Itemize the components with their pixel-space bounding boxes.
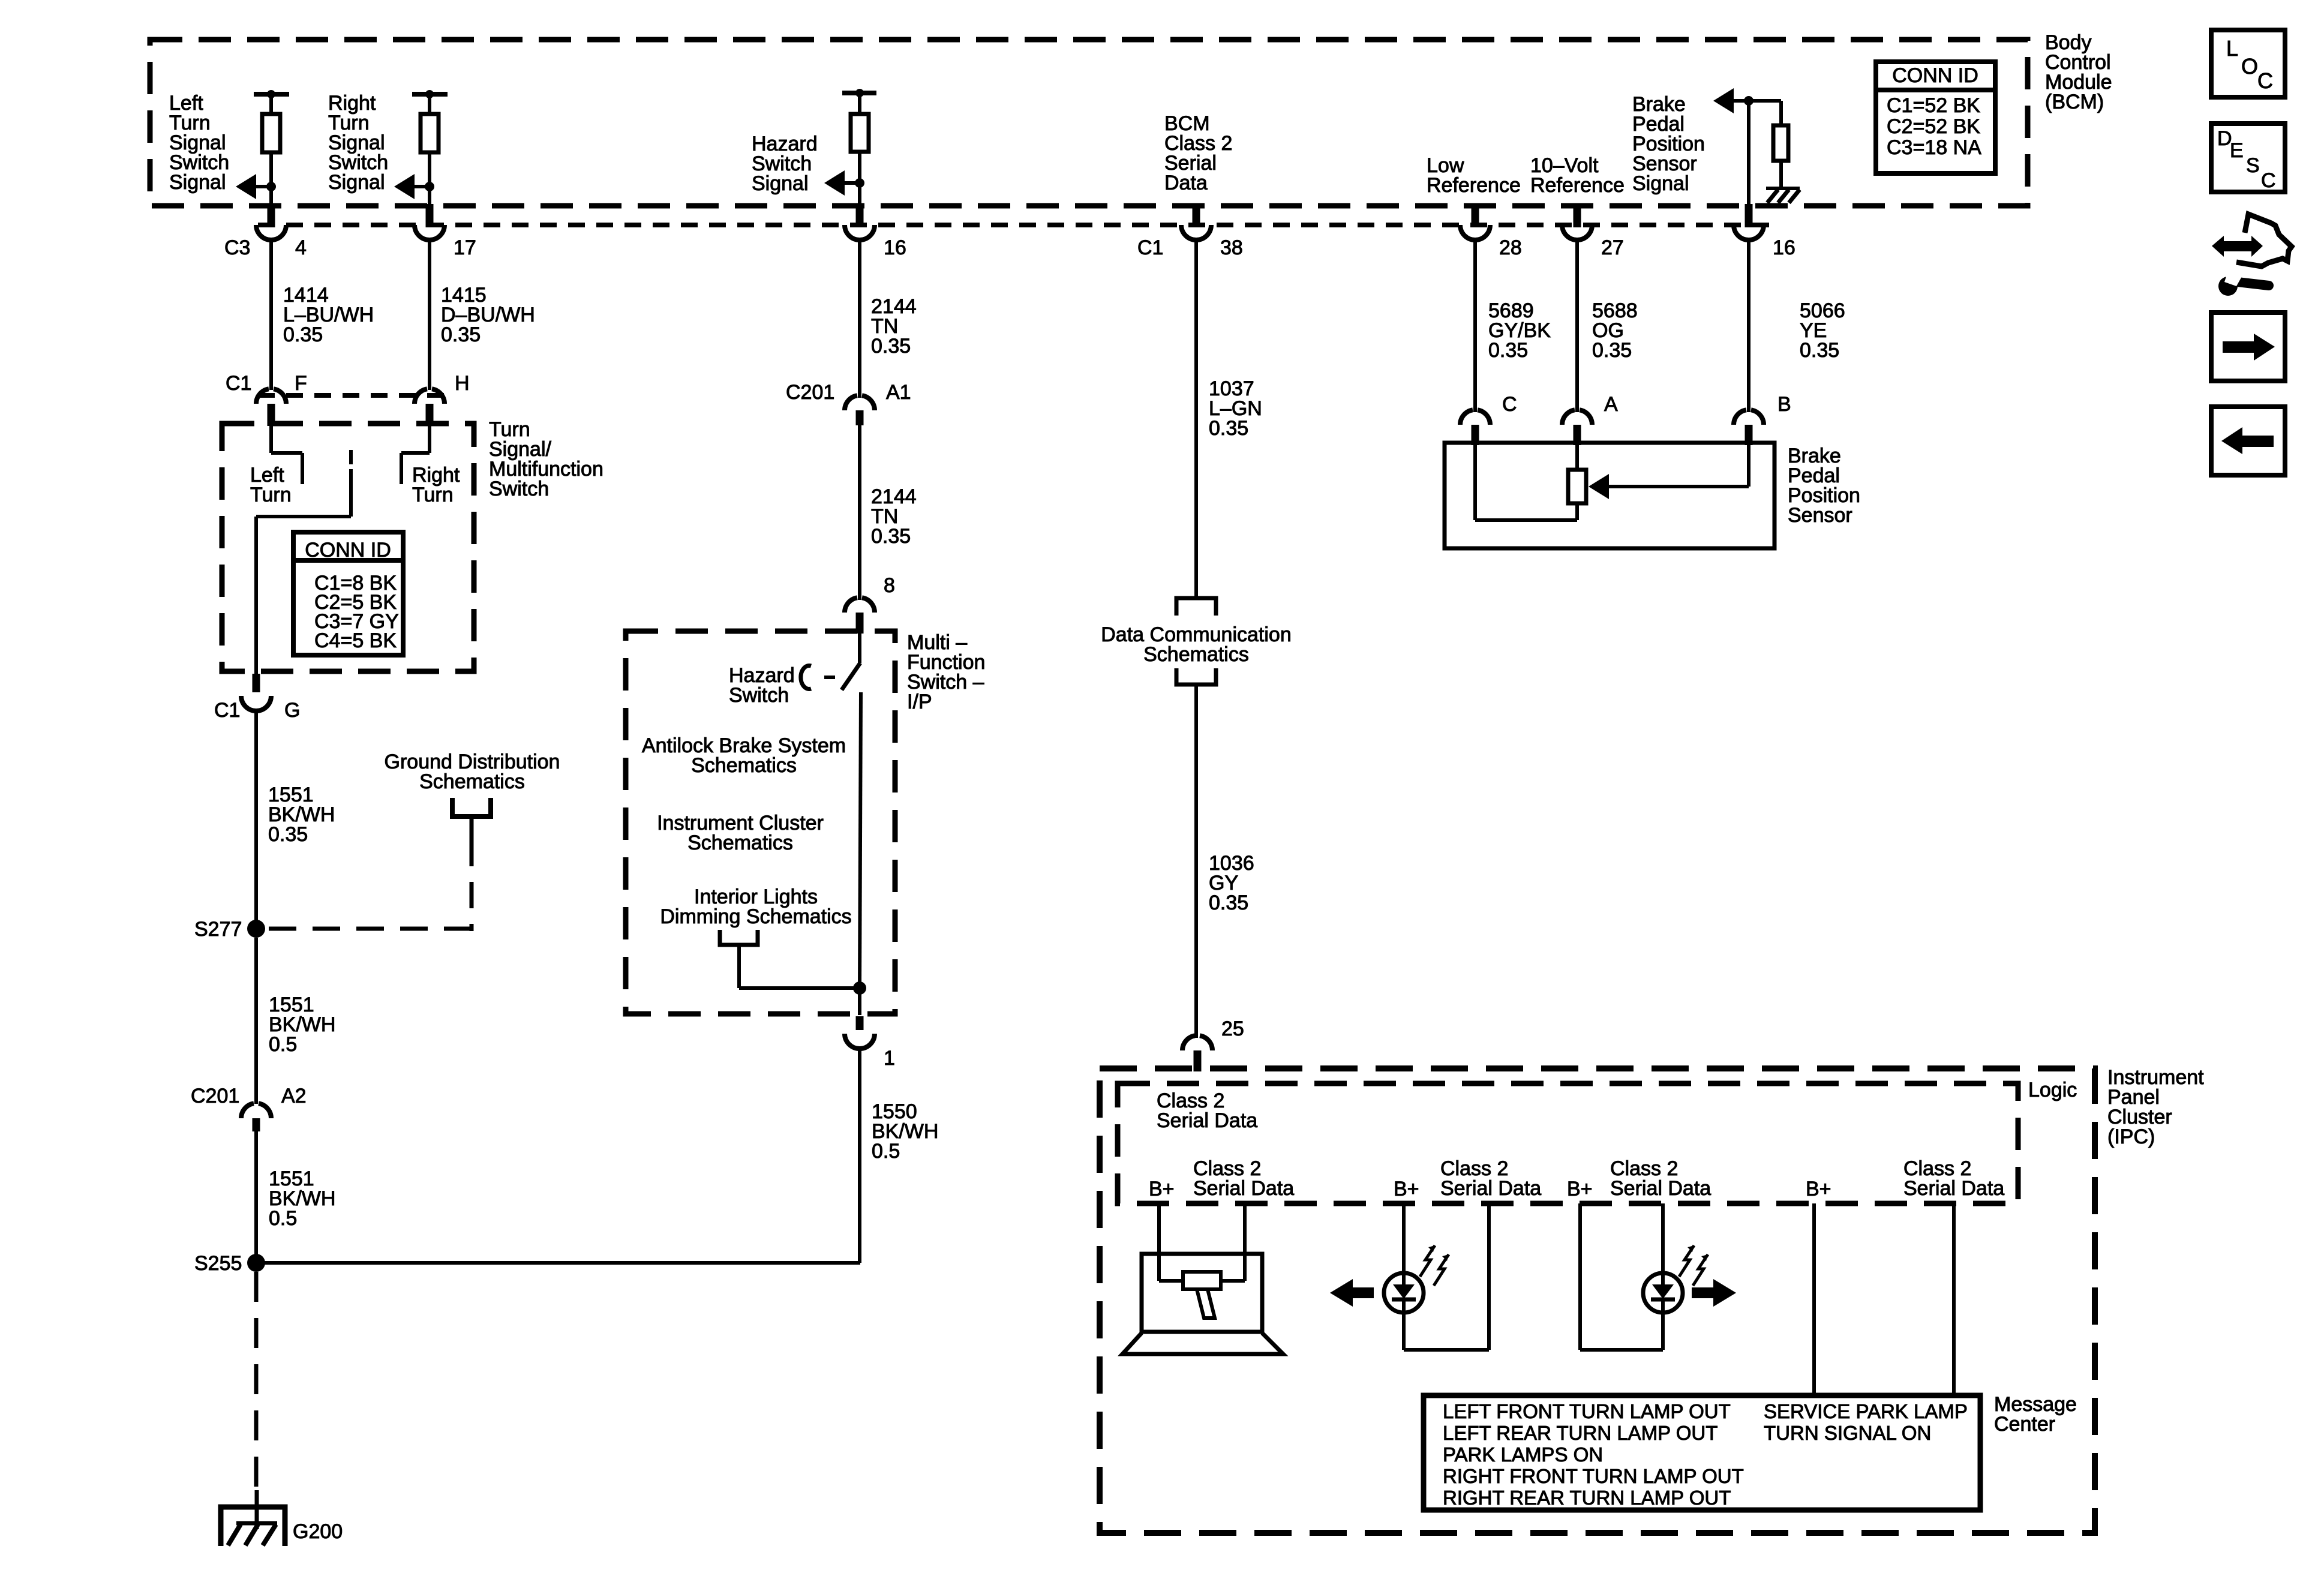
node hazard/interior lights junction xyxy=(853,981,866,995)
wire 1414 L-BU/WH xyxy=(269,240,273,390)
svg-text:C201: C201 xyxy=(786,381,834,404)
svg-text:B+: B+ xyxy=(1806,1178,1831,1200)
svg-text:Serial Data: Serial Data xyxy=(1903,1177,2004,1200)
resistor hazard switch pull-up xyxy=(851,114,869,152)
connector pin 8 multifunction switch I/P xyxy=(845,598,857,613)
telltale lens skirt xyxy=(1122,1333,1283,1354)
svg-text:4: 4 xyxy=(295,236,307,259)
pin stub 1 xyxy=(856,1016,864,1030)
wire 5689 GY/BK xyxy=(1473,240,1477,412)
connector pin 27 10-volt reference xyxy=(1562,225,1592,240)
wire B+ to message center xyxy=(1812,1203,1816,1395)
pin stub for connector pin 38 (C1) class 2 data xyxy=(1193,204,1200,227)
svg-text:1: 1 xyxy=(884,1047,895,1070)
wire sensor resistor bottom xyxy=(1575,503,1579,520)
svg-text:Schematics: Schematics xyxy=(419,770,525,793)
splice S277 xyxy=(247,920,265,938)
svg-text:C2=52 BK: C2=52 BK xyxy=(1887,115,1980,138)
resistor BPP signal pull-up xyxy=(1773,125,1788,161)
svg-text:S277: S277 xyxy=(194,918,242,941)
wire 1036 GY xyxy=(1194,685,1198,1038)
wire sensor wiper horizontal xyxy=(1607,485,1749,488)
svg-text:I/P: I/P xyxy=(907,691,932,713)
arrow hazard switch signal xyxy=(824,170,845,196)
wire 1551 BK/WH middle xyxy=(254,938,258,1104)
pin stub 8 xyxy=(856,613,864,634)
svg-text:RIGHT REAR TURN LAMP OUT: RIGHT REAR TURN LAMP OUT xyxy=(1443,1487,1731,1509)
wire pin 8 to hazard switch contact xyxy=(858,634,861,663)
reference bracket ground distribution xyxy=(452,798,491,816)
wire down to BPP pull-up resistor xyxy=(1779,101,1783,125)
wire switch common down to C1 G xyxy=(254,517,258,674)
dashed wire S255 to G200 xyxy=(254,1272,259,1490)
pin stub for connector pin 16 hazard xyxy=(856,204,864,227)
telltale bulb xyxy=(1183,1272,1221,1289)
wire bar above hazard resistor xyxy=(842,91,876,95)
resistor left turn signal pull-up xyxy=(262,114,280,152)
wire 1550 BK/WH xyxy=(858,1049,861,1263)
node left turn signal arrow junction xyxy=(266,182,276,191)
LED right turn indicator xyxy=(1643,1273,1683,1313)
wire loop return (left LED) xyxy=(1487,1203,1491,1350)
svg-text:PARK LAMPS ON: PARK LAMPS ON xyxy=(1443,1443,1603,1466)
hazard switch blade xyxy=(842,663,860,690)
BCM (Body Control Module) dashed box xyxy=(150,40,2028,206)
svg-text:CONN ID: CONN ID xyxy=(305,539,391,562)
wire loop bottom (left LED) xyxy=(1404,1348,1489,1352)
wire loop to LED right xyxy=(1661,1313,1665,1350)
Turn Signal/Multifunction Switch dashed box xyxy=(222,424,474,671)
wire 1551 BK/WH upper xyxy=(254,711,258,929)
connector pin C BPP sensor xyxy=(1460,410,1473,425)
svg-text:0.35: 0.35 xyxy=(283,323,323,346)
dashed link bracket to S277 (vertical) xyxy=(470,840,474,931)
svg-text:Serial Data: Serial Data xyxy=(1193,1177,1294,1200)
svg-text:28: 28 xyxy=(1499,236,1522,259)
reference bracket interior lights dimming xyxy=(720,930,758,945)
wire right turn contact horizontal xyxy=(401,451,430,455)
LED right anode lead xyxy=(1661,1273,1665,1284)
wire junction to box edge xyxy=(858,988,861,1015)
wire 1037 L-GN xyxy=(1194,240,1198,598)
wire junction to BPP pull-up resistor xyxy=(1749,99,1781,103)
resistor BPP sensor element xyxy=(1568,470,1586,503)
connector interface line below BCM xyxy=(258,223,1776,227)
svg-text:Reference: Reference xyxy=(1427,174,1521,197)
svg-text:0.5: 0.5 xyxy=(269,1033,297,1056)
pin stub C xyxy=(1472,425,1479,445)
svg-text:A1: A1 xyxy=(886,381,911,404)
resistor right turn signal pull-up xyxy=(421,114,439,152)
stem interior lights bracket xyxy=(737,945,741,988)
wire class 2 to telltale xyxy=(1243,1203,1247,1281)
svg-text:RIGHT FRONT TURN LAMP OUT: RIGHT FRONT TURN LAMP OUT xyxy=(1443,1465,1744,1487)
svg-text:Signal: Signal xyxy=(752,172,809,195)
svg-text:16: 16 xyxy=(884,236,906,259)
svg-text:B: B xyxy=(1777,393,1791,416)
ground hatch 3 G200 xyxy=(263,1524,276,1545)
arrow brake pedal position sensor signal xyxy=(1713,88,1734,113)
svg-text:Signal: Signal xyxy=(1632,172,1689,195)
svg-text:C: C xyxy=(1502,393,1517,416)
ground enclosure G200 xyxy=(221,1507,285,1546)
svg-text:Serial Data: Serial Data xyxy=(1440,1177,1541,1200)
wire class2 inside telltale xyxy=(1243,1254,1247,1281)
ground stem G200 xyxy=(255,1490,259,1529)
icon diagnostic (double arrow + part outline + wrench) xyxy=(2222,241,2253,251)
node right turn signal arrow junction xyxy=(425,182,434,191)
svg-text:25: 25 xyxy=(1221,1017,1244,1040)
svg-text:(BCM): (BCM) xyxy=(2045,91,2104,113)
connector pin H right turn input xyxy=(415,389,427,404)
ground hatch 1 (BCM internal) xyxy=(1767,190,1778,203)
CONN ID table header divider (BCM) xyxy=(1876,88,1995,92)
pin stub A2 xyxy=(253,1118,260,1131)
svg-text:17: 17 xyxy=(454,236,476,259)
splice S255 xyxy=(247,1254,265,1272)
svg-text:B+: B+ xyxy=(1149,1178,1175,1200)
svg-text:LEFT REAR TURN LAMP OUT: LEFT REAR TURN LAMP OUT xyxy=(1443,1422,1718,1444)
wire left turn contact down xyxy=(301,453,304,484)
wire 1415 D-BU/WH xyxy=(428,240,431,390)
ground hatch 2 G200 xyxy=(245,1524,258,1545)
svg-text:B+: B+ xyxy=(1394,1178,1419,1200)
telltale bulb base xyxy=(1197,1289,1215,1318)
wire switch common horizontal xyxy=(256,515,351,518)
arrow left turn signal switch signal xyxy=(236,174,256,199)
pin stub B xyxy=(1745,425,1753,445)
stem of ground distribution bracket xyxy=(470,816,474,840)
connector C201 pin A2 xyxy=(241,1103,254,1118)
svg-text:C201: C201 xyxy=(191,1085,239,1107)
Multi-Function Switch I/P dashed box xyxy=(626,631,895,1014)
LED left light ray 1 xyxy=(1420,1245,1435,1277)
svg-text:38: 38 xyxy=(1220,236,1243,259)
pin stub A1 xyxy=(856,410,864,425)
connector pin 17 right turn xyxy=(415,225,445,240)
svg-text:LEFT FRONT TURN LAMP OUT: LEFT FRONT TURN LAMP OUT xyxy=(1443,1400,1731,1422)
LED left cathode bar xyxy=(1392,1298,1416,1302)
svg-text:Reference: Reference xyxy=(1530,174,1625,197)
svg-text:C3: C3 xyxy=(224,236,250,259)
turn switch common wire xyxy=(349,469,353,517)
svg-text:C: C xyxy=(2261,169,2276,192)
LED right cathode lead xyxy=(1661,1299,1665,1313)
ground bar G200 xyxy=(236,1521,277,1526)
wire loop bottom (right LED) xyxy=(1580,1348,1663,1352)
connector pin G ground output xyxy=(241,696,271,711)
wire class 2 to message center xyxy=(1952,1203,1956,1395)
connector pin 4 (C3) left turn xyxy=(256,225,286,240)
ground hatch 2 (BCM internal) xyxy=(1778,190,1789,203)
node brake pedal position sensor signal junction xyxy=(1744,96,1753,106)
dashed link to S277 (horizontal) xyxy=(266,927,472,931)
wire pin A to sensor resistor xyxy=(1575,445,1579,470)
svg-text:C4=5 BK: C4=5 BK xyxy=(314,629,397,652)
connector pin 38 (C1) class 2 data xyxy=(1181,225,1211,240)
wire 2144 TN upper xyxy=(858,240,861,398)
connector pin B BPP sensor xyxy=(1734,410,1746,425)
wire class 2 to right-turn LED xyxy=(1661,1203,1665,1273)
wire left turn contact horizontal xyxy=(271,451,302,455)
arrow left turn indicator (above polygon) xyxy=(1353,1287,1374,1298)
connector pin 25 IPC xyxy=(1182,1035,1195,1050)
wire class 2 to left-turn LED xyxy=(1402,1203,1406,1273)
svg-text:S255: S255 xyxy=(194,1252,242,1275)
svg-text:C3=18 NA: C3=18 NA xyxy=(1887,136,1981,159)
svg-text:0.35: 0.35 xyxy=(1592,339,1632,362)
wire to telltale bulb right xyxy=(1221,1279,1245,1283)
ground hatch 1 G200 xyxy=(228,1524,241,1545)
node hazard switch signal arrow junction xyxy=(855,178,864,188)
svg-text:Signal: Signal xyxy=(328,171,385,194)
wire B+ inside telltale xyxy=(1157,1254,1161,1281)
svg-text:B+: B+ xyxy=(1567,1178,1593,1200)
pin stub for connector pin 17 right turn xyxy=(426,204,434,227)
svg-text:A2: A2 xyxy=(281,1085,307,1107)
svg-text:F: F xyxy=(295,372,307,395)
svg-text:16: 16 xyxy=(1773,236,1795,259)
wire B+ to loop (right LED) xyxy=(1578,1203,1582,1350)
LED right light ray 1 xyxy=(1679,1245,1694,1277)
pin stub H xyxy=(426,404,434,426)
LED left cathode lead xyxy=(1402,1299,1406,1313)
connector C201 pin A1 xyxy=(845,395,857,410)
pin stub for connector pin 16 BPP signal xyxy=(1745,204,1753,227)
pin stub for connector pin 27 10-volt reference xyxy=(1574,204,1581,227)
LED left anode lead xyxy=(1402,1273,1406,1284)
svg-text:Schematics: Schematics xyxy=(1143,643,1249,666)
wire left-turn resistor bottom to BCM edge xyxy=(269,152,273,205)
wire hazard resistor bottom to BCM edge xyxy=(858,152,861,205)
wire to telltale bulb left xyxy=(1159,1279,1183,1283)
svg-text:A: A xyxy=(1604,393,1618,416)
svg-text:Turn: Turn xyxy=(250,484,292,506)
hazard switch actuator arc xyxy=(801,666,811,689)
pin stub F xyxy=(268,404,275,426)
wire F into left turn contact xyxy=(269,426,273,453)
svg-text:0.5: 0.5 xyxy=(872,1140,900,1163)
arrow right turn signal switch signal xyxy=(394,174,415,199)
wire B+ to telltale xyxy=(1157,1203,1161,1281)
wire right turn contact down xyxy=(400,453,403,484)
wire 1551 BK/WH lower xyxy=(254,1131,258,1263)
svg-text:Sensor: Sensor xyxy=(1788,504,1852,527)
wire BPP signal down to BCM edge xyxy=(1747,101,1750,205)
CONN ID table header divider (switch) xyxy=(293,558,403,563)
svg-text:L: L xyxy=(2226,36,2238,61)
wire right-turn resistor top xyxy=(428,94,431,114)
wire H into right turn contact xyxy=(428,426,431,453)
connector pin F left turn input xyxy=(256,389,269,404)
svg-text:C1: C1 xyxy=(214,699,240,722)
svg-text:27: 27 xyxy=(1601,236,1624,259)
pin stub 25 xyxy=(1194,1050,1202,1071)
node at top of left-turn resistor xyxy=(267,90,275,98)
svg-text:0.35: 0.35 xyxy=(871,525,911,548)
svg-text:O: O xyxy=(2241,54,2258,79)
connector pin 28 low reference xyxy=(1460,225,1490,240)
svg-text:C1: C1 xyxy=(1137,236,1163,259)
svg-text:TURN SIGNAL ON: TURN SIGNAL ON xyxy=(1764,1422,1931,1444)
svg-text:0.35: 0.35 xyxy=(871,335,911,358)
svg-text:Turn: Turn xyxy=(412,484,454,506)
wire LED left to loop xyxy=(1402,1313,1406,1350)
svg-text:Schematics: Schematics xyxy=(691,754,797,777)
svg-text:C: C xyxy=(2257,68,2273,93)
LED right cathode bar xyxy=(1651,1298,1675,1302)
Brake Pedal Position Sensor box xyxy=(1445,443,1774,548)
svg-text:C1: C1 xyxy=(226,372,251,395)
svg-text:SERVICE PARK LAMP: SERVICE PARK LAMP xyxy=(1764,1400,1968,1422)
wire right-turn resistor bottom to BCM edge xyxy=(428,152,431,205)
svg-text:Signal: Signal xyxy=(169,171,226,194)
CONN ID table (switch) xyxy=(293,532,403,655)
svg-text:Center: Center xyxy=(1994,1413,2055,1436)
arrow right turn indicator xyxy=(1692,1287,1713,1298)
svg-text:S: S xyxy=(2246,154,2260,177)
icon box arrow left xyxy=(2211,407,2285,475)
pin stub A xyxy=(1574,425,1581,445)
node at top of hazard resistor xyxy=(855,89,864,97)
svg-text:E: E xyxy=(2230,139,2244,162)
wire BPP pull-up resistor to ground xyxy=(1779,161,1783,188)
svg-text:0.35: 0.35 xyxy=(1800,339,1839,362)
ground hatch 3 (BCM internal) xyxy=(1789,190,1800,203)
svg-text:Serial Data: Serial Data xyxy=(1610,1177,1711,1200)
wire S255 to multifunction switch return xyxy=(256,1261,860,1265)
wire pin B inside sensor xyxy=(1747,445,1750,487)
wire left-turn resistor top xyxy=(269,94,273,114)
svg-text:Serial Data: Serial Data xyxy=(1157,1109,1257,1132)
reference bracket data communication (bottom) xyxy=(1176,668,1216,685)
message center display box xyxy=(1424,1395,1980,1510)
pin stub G xyxy=(253,674,260,692)
svg-text:Dimming Schematics: Dimming Schematics xyxy=(660,905,851,928)
icon box DESC xyxy=(2211,124,2285,192)
svg-text:8: 8 xyxy=(884,574,895,597)
svg-text:Switch: Switch xyxy=(489,478,549,500)
connector pin 16 BPP signal xyxy=(1734,225,1764,240)
svg-text:0.35: 0.35 xyxy=(1209,417,1248,440)
wire hazard switch to splice xyxy=(860,692,861,988)
wire 5688 OG xyxy=(1575,240,1579,412)
svg-text:(IPC): (IPC) xyxy=(2107,1125,2155,1148)
Instrument Panel Cluster (IPC) dashed box xyxy=(1100,1068,2095,1533)
pin stub for connector pin 28 low reference xyxy=(1472,204,1479,227)
connector pin 16 hazard xyxy=(845,225,875,240)
wire interior lights bracket to hazard wire xyxy=(739,986,860,990)
wire sensor bottom horizontal xyxy=(1475,518,1577,522)
wire pin C inside sensor xyxy=(1473,445,1477,520)
svg-text:Schematics: Schematics xyxy=(687,831,793,854)
svg-text:0.5: 0.5 xyxy=(269,1207,297,1230)
hazard switch actuator dash xyxy=(824,676,835,679)
node at top of right-turn resistor xyxy=(425,90,434,98)
ground symbol bar (BCM internal) xyxy=(1766,187,1800,190)
wire 2144 TN lower xyxy=(858,425,861,600)
svg-text:0.35: 0.35 xyxy=(1488,339,1528,362)
wire bar above left-turn resistor xyxy=(254,92,289,97)
wire 5066 YE xyxy=(1747,240,1750,412)
pin stub for connector pin 4 (C3) left turn xyxy=(268,204,275,227)
LED left turn indicator xyxy=(1384,1273,1424,1313)
telltale indicator housing xyxy=(1142,1254,1262,1332)
svg-text:Logic: Logic xyxy=(2028,1079,2077,1101)
svg-text:G200: G200 xyxy=(293,1520,343,1543)
svg-text:C1=52 BK: C1=52 BK xyxy=(1887,94,1980,117)
svg-text:H: H xyxy=(455,372,470,395)
CONN ID table (BCM) xyxy=(1876,62,1995,173)
svg-text:0.35: 0.35 xyxy=(1209,891,1248,914)
IPC Logic dashed box xyxy=(1118,1083,2018,1203)
svg-text:0.35: 0.35 xyxy=(268,823,308,846)
svg-text:CONN ID: CONN ID xyxy=(1892,64,1978,87)
connector pin 1 multifunction switch output xyxy=(845,1034,875,1049)
icon box LOC xyxy=(2211,30,2285,97)
connector interface line C1 (multifunction switch) xyxy=(258,393,447,398)
svg-text:Switch: Switch xyxy=(729,684,789,707)
reference bracket data communication (top) xyxy=(1176,598,1216,616)
wire bar above right-turn resistor xyxy=(412,92,448,97)
svg-text:G: G xyxy=(284,699,300,722)
turn switch actuator dashed segment xyxy=(349,450,353,464)
wire hazard resistor top xyxy=(858,93,861,114)
svg-text:0.35: 0.35 xyxy=(441,323,481,346)
connector pin A BPP sensor xyxy=(1562,410,1575,425)
icon box arrow right xyxy=(2211,313,2285,381)
svg-text:Data: Data xyxy=(1164,172,1208,194)
LED left light ray 2 xyxy=(1434,1254,1449,1286)
LED right light ray 2 xyxy=(1693,1254,1708,1286)
